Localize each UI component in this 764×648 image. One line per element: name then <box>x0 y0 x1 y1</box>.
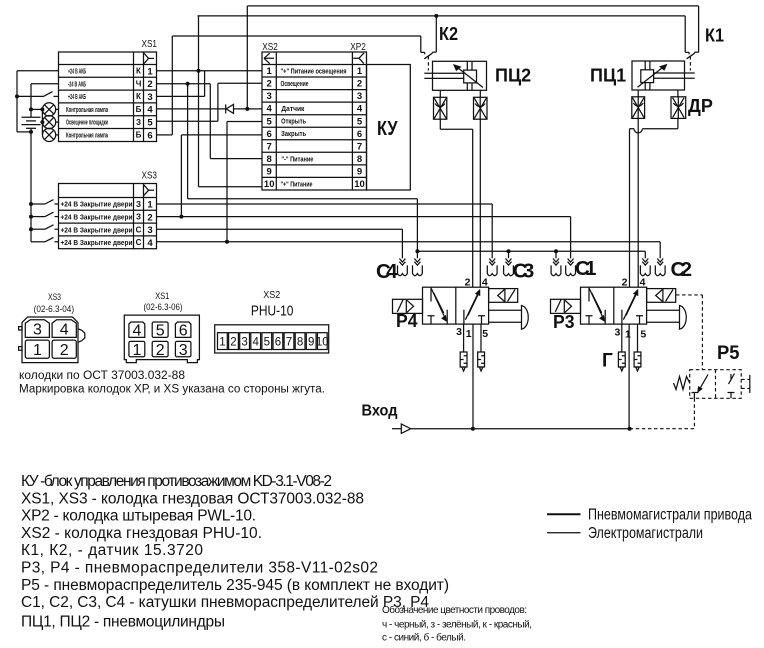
svg-text:1: 1 <box>357 66 363 77</box>
svg-text:С1: С1 <box>575 257 597 280</box>
svg-text:9: 9 <box>308 337 314 349</box>
svg-text:XS2: XS2 <box>262 41 278 53</box>
svg-text:10: 10 <box>264 179 275 190</box>
svg-text:6: 6 <box>267 129 272 140</box>
svg-text:4: 4 <box>147 238 153 249</box>
svg-text:2: 2 <box>622 277 628 289</box>
svg-text:"-" Питание: "-" Питание <box>281 156 313 163</box>
svg-text:Р3, Р4 - пневмораспределители: Р3, Р4 - пневмораспределители 358-V11-02… <box>21 560 378 577</box>
svg-text:4: 4 <box>640 277 646 289</box>
svg-text:Р4: Р4 <box>396 311 418 331</box>
svg-text:Р3: Р3 <box>553 312 575 332</box>
svg-text:К2: К2 <box>439 24 458 44</box>
svg-text:(02-6.3-04): (02-6.3-04) <box>34 304 75 314</box>
svg-text:Пневмомагистрали привода: Пневмомагистрали привода <box>588 507 752 524</box>
svg-text:3: 3 <box>33 321 42 338</box>
svg-text:ХР2 - колодка штыревая PWL-10.: ХР2 - колодка штыревая PWL-10. <box>21 508 256 525</box>
svg-text:2: 2 <box>156 342 165 359</box>
svg-text:XS2 - колодка гнездовая PHU-10: XS2 - колодка гнездовая PHU-10. <box>21 525 262 542</box>
svg-text:7: 7 <box>267 141 272 152</box>
svg-text:6: 6 <box>357 129 362 140</box>
svg-text:XS1, XS3 - колодка гнездовая О: XS1, XS3 - колодка гнездовая ОСТ37003.03… <box>21 490 364 507</box>
svg-text:1: 1 <box>267 66 273 77</box>
svg-text:ДР: ДР <box>688 96 713 116</box>
svg-text:4: 4 <box>132 323 141 340</box>
svg-text:+24 В Закрытие двери: +24 В Закрытие двери <box>61 240 133 247</box>
svg-text:Ч: Ч <box>136 79 142 88</box>
svg-text:10: 10 <box>316 337 329 349</box>
svg-text:ч - черный, з - зелёный, к - к: ч - черный, з - зелёный, к - красный, <box>382 619 532 630</box>
svg-text:5: 5 <box>267 116 273 127</box>
svg-text:2: 2 <box>147 212 152 223</box>
svg-text:7: 7 <box>286 337 292 349</box>
svg-text:XS3: XS3 <box>48 292 61 302</box>
svg-text:3: 3 <box>357 91 362 102</box>
svg-text:+24 В Закрытие двери: +24 В Закрытие двери <box>61 227 133 234</box>
svg-text:Р5 - пневмораспределитель 235-: Р5 - пневмораспределитель 235-945 (в ком… <box>21 577 449 594</box>
svg-text:9: 9 <box>267 167 272 178</box>
svg-text:Открыть: Открыть <box>281 119 307 126</box>
svg-text:6: 6 <box>147 130 152 141</box>
svg-text:К: К <box>136 67 141 76</box>
svg-text:5: 5 <box>357 116 363 127</box>
svg-text:2: 2 <box>465 277 471 289</box>
svg-text:"+" Питание освещения: "+" Питание освещения <box>281 68 347 75</box>
svg-text:3: 3 <box>147 225 152 236</box>
svg-text:"+" Питание: "+" Питание <box>281 181 313 188</box>
svg-text:ХР2: ХР2 <box>350 41 366 53</box>
svg-text:2: 2 <box>147 79 152 90</box>
svg-text:3: 3 <box>241 337 247 349</box>
svg-text:6: 6 <box>275 337 281 349</box>
svg-text:Вход: Вход <box>362 403 398 420</box>
svg-text:Датчик: Датчик <box>281 106 304 113</box>
svg-text:+24 В Закрытие двери: +24 В Закрытие двери <box>61 215 133 222</box>
svg-text:Б: Б <box>136 131 142 140</box>
svg-text:8: 8 <box>267 154 272 165</box>
svg-text:С3: С3 <box>513 260 535 283</box>
svg-text:ПЦ1: ПЦ1 <box>590 66 626 86</box>
svg-text:9: 9 <box>357 167 362 178</box>
svg-text:(02-6.3-06): (02-6.3-06) <box>144 302 183 312</box>
svg-text:PHU-10: PHU-10 <box>251 303 294 320</box>
svg-text:+24 В Закрытие двери: +24 В Закрытие двери <box>61 202 133 209</box>
svg-text:4: 4 <box>147 105 153 116</box>
svg-text:4: 4 <box>252 337 259 349</box>
svg-text:8: 8 <box>357 154 362 165</box>
svg-text:6: 6 <box>179 323 188 340</box>
svg-text:5: 5 <box>264 337 270 349</box>
svg-text:3: 3 <box>267 91 272 102</box>
svg-text:Г: Г <box>602 351 613 372</box>
svg-text:Контрольная лампа: Контрольная лампа <box>66 133 108 140</box>
svg-text:2: 2 <box>230 337 236 349</box>
svg-text:XS1: XS1 <box>142 38 158 50</box>
svg-text:7: 7 <box>357 141 362 152</box>
svg-text:2: 2 <box>267 79 272 90</box>
svg-text:8: 8 <box>297 337 303 349</box>
svg-text:2: 2 <box>357 79 362 90</box>
svg-text:+24 В АКБ: +24 В АКБ <box>68 94 86 101</box>
svg-text:3: 3 <box>456 326 462 338</box>
svg-text:5: 5 <box>640 329 646 341</box>
svg-text:10: 10 <box>354 179 365 190</box>
svg-text:2: 2 <box>60 342 69 359</box>
svg-text:3: 3 <box>179 342 188 359</box>
svg-text:ПЦ2: ПЦ2 <box>495 66 531 86</box>
svg-text:Освещение площадки: Освещение площадки <box>66 120 108 127</box>
svg-text:Контрольная лампа: Контрольная лампа <box>66 107 108 114</box>
svg-text:С4: С4 <box>376 260 398 283</box>
svg-text:1: 1 <box>33 342 42 359</box>
svg-text:С1, С2, С3, С4 - катушки пневм: С1, С2, С3, С4 - катушки пневмораспредел… <box>21 594 429 611</box>
svg-text:3: 3 <box>147 92 152 103</box>
svg-text:К: К <box>136 92 141 101</box>
svg-text:Б: Б <box>136 105 142 114</box>
svg-text:ПЦ1, ПЦ2 - пневмоцилиндры: ПЦ1, ПЦ2 - пневмоцилиндры <box>21 614 225 631</box>
svg-text:+24 В АКБ: +24 В АКБ <box>68 69 86 76</box>
svg-text:XS3: XS3 <box>142 170 158 182</box>
svg-text:З: З <box>136 213 141 222</box>
svg-text:1: 1 <box>466 328 472 340</box>
svg-text:1: 1 <box>147 200 153 211</box>
svg-text:З: З <box>136 118 141 127</box>
svg-text:Освещение: Освещение <box>281 81 309 88</box>
svg-text:КУ: КУ <box>377 118 398 140</box>
svg-text:С: С <box>136 238 142 247</box>
svg-text:XS2: XS2 <box>263 290 280 301</box>
svg-text:4: 4 <box>267 104 273 115</box>
svg-text:Обозначение цветности проводов: Обозначение цветности проводов: <box>382 604 527 616</box>
svg-text:Маркировка колодок ХР, и XS ук: Маркировка колодок ХР, и XS указана со с… <box>19 384 325 396</box>
svg-text:К1, К2, - датчик 15.3720: К1, К2, - датчик 15.3720 <box>21 542 203 559</box>
svg-text:4: 4 <box>60 321 69 338</box>
svg-text:1: 1 <box>219 337 225 349</box>
svg-text:XS1: XS1 <box>155 291 169 301</box>
svg-text:С2: С2 <box>671 258 693 281</box>
svg-text:1: 1 <box>625 329 631 341</box>
svg-text:с - синий, б - белый.: с - синий, б - белый. <box>382 632 466 644</box>
svg-text:Закрыть: Закрыть <box>281 131 307 138</box>
svg-text:колодки по ОСТ 37003.032-88: колодки по ОСТ 37003.032-88 <box>19 370 185 382</box>
svg-text:-24 В АКБ: -24 В АКБ <box>68 81 86 88</box>
svg-text:4: 4 <box>482 277 488 289</box>
svg-text:5: 5 <box>482 328 488 340</box>
svg-text:З: З <box>136 200 141 209</box>
svg-text:5: 5 <box>156 323 165 340</box>
svg-text:Р5: Р5 <box>717 343 740 364</box>
svg-text:3: 3 <box>614 327 620 339</box>
svg-text:КУ -блок управления противозаж: КУ -блок управления противозажимом KD-3.… <box>21 473 332 490</box>
svg-text:Электромагистрали: Электромагистрали <box>588 525 703 542</box>
svg-text:4: 4 <box>357 104 363 115</box>
svg-text:С: С <box>136 225 142 234</box>
svg-text:К1: К1 <box>705 26 724 46</box>
svg-text:1: 1 <box>132 342 141 359</box>
svg-text:1: 1 <box>147 66 153 77</box>
svg-text:5: 5 <box>147 118 153 129</box>
